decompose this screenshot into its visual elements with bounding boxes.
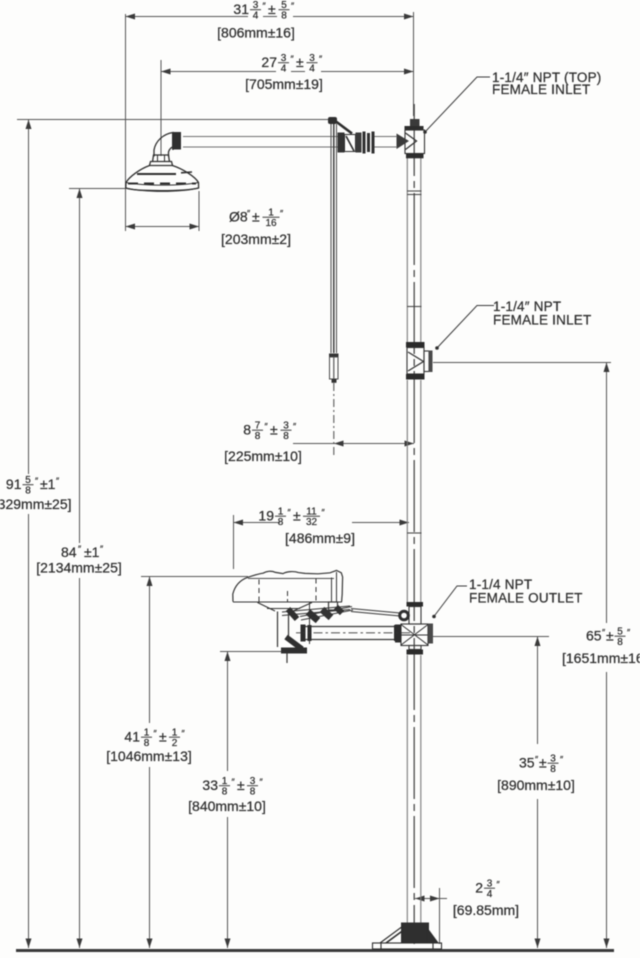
valve right nut (356, 133, 362, 153)
dim line dia8 horizontal (126, 226, 200, 228)
dim text 91-5/8 (6, 475, 60, 497)
right arrow 19-1/8 (400, 520, 410, 526)
left cap (395, 625, 401, 643)
pipe coupling y=307 (407, 306, 422, 308)
right arrow 8-7/8 (405, 441, 415, 447)
svg-text:[2329mm±25]: [2329mm±25] (0, 496, 72, 512)
dim text 33-1/8 (202, 776, 263, 798)
body (407, 348, 424, 375)
svg-text:″: ″ (247, 209, 251, 219)
svg-text:8: 8 (283, 431, 289, 442)
svg-text:″: ″ (154, 729, 158, 739)
funnel inner line (267, 608, 300, 610)
bowl hidden drain dash (287, 591, 289, 602)
up arrow 65 (604, 363, 610, 373)
ext line pipe centre above tee (413, 12, 415, 116)
ext line 2-3/4 x=439 (439, 888, 441, 944)
svg-text:32: 32 (306, 517, 318, 528)
left gusset (380, 926, 403, 943)
down arrow 35 (535, 939, 541, 949)
dim text dia 8 (229, 207, 284, 229)
callout side inlet (493, 299, 591, 328)
ext line side inlet y=362 (433, 362, 611, 364)
svg-text:″: ″ (293, 422, 297, 432)
svg-text:″: ″ (497, 880, 501, 890)
right arrow 31-3/4 (404, 14, 414, 20)
dim line 84 vertical (79, 189, 81, 543)
down arrow 41-1/8 (147, 939, 153, 949)
svg-text:″: ″ (260, 777, 264, 787)
tee bottom flange (406, 154, 424, 159)
svg-text:″: ″ (291, 54, 295, 64)
svg-text:[203mm±2]: [203mm±2] (221, 231, 291, 247)
svg-text:±: ± (293, 508, 301, 524)
ext line outlet y=636 (433, 636, 549, 638)
svg-text:Ø8: Ø8 (229, 209, 248, 225)
svg-text:4: 4 (487, 889, 493, 900)
svg-text:84: 84 (61, 544, 77, 560)
svg-text:FEMALE OUTLET: FEMALE OUTLET (469, 591, 583, 606)
branch cap hatched (429, 351, 433, 373)
svg-text:[1651mm±16]: [1651mm±16] (562, 650, 640, 666)
right gusset (427, 928, 438, 943)
svg-text:4: 4 (281, 63, 287, 74)
svg-text:″: ″ (280, 209, 284, 219)
funnel (258, 603, 313, 612)
svg-text:″: ″ (322, 508, 326, 518)
svg-text:±1: ±1 (40, 476, 56, 492)
waste pipe right coupling (394, 625, 399, 641)
dim text 84 (61, 544, 104, 560)
left arrow 27-3/4 (161, 69, 171, 75)
valve handle lever (334, 120, 352, 134)
head bell cone (126, 166, 199, 191)
ext line head centre x=161 (160, 60, 162, 156)
nozzle body (329, 602, 338, 610)
dim line 2-3/4 horizontal (415, 898, 447, 900)
arm pipe left section (183, 136, 338, 138)
svg-text:8: 8 (243, 422, 251, 438)
svg-text:″: ″ (78, 544, 82, 554)
svg-text:65: 65 (586, 628, 602, 644)
svg-text:19: 19 (258, 508, 274, 524)
tee inner cone lines (406, 133, 417, 150)
svg-text:″: ″ (100, 544, 104, 554)
svg-text:[2134mm±25]: [2134mm±25] (36, 560, 122, 576)
bowl outline (233, 570, 343, 601)
dim line 41-1/8 vertical (149, 577, 151, 723)
top flange (407, 602, 424, 607)
svg-text:8: 8 (25, 485, 31, 496)
down arrow 84 (77, 939, 83, 949)
svg-text:FEMALE INLET: FEMALE INLET (493, 313, 591, 328)
down arrow 91-5/8 (26, 939, 32, 949)
right arrow 27-3/4 (404, 69, 414, 75)
svg-text:27: 27 (261, 54, 277, 70)
pipe segment middle (406, 380, 408, 602)
svg-text:8: 8 (250, 786, 256, 797)
top flange (406, 342, 425, 348)
bell rim top edge (126, 183, 199, 186)
svg-text:35: 35 (519, 755, 535, 771)
svg-text:±: ± (296, 54, 304, 70)
left arrow 8-7/8 (334, 441, 344, 447)
dim text 31-3/4 (233, 0, 295, 21)
centre spray blobs (308, 612, 318, 621)
ext line bowl top y=576 (141, 576, 248, 578)
dim line 91-5/8 vertical (28, 120, 30, 474)
up arrow 41-1/8 (147, 577, 153, 587)
svg-text:″: ″ (182, 729, 186, 739)
waste pipe (301, 626, 398, 628)
bowl bottom line (233, 601, 342, 603)
rod centre dark line (333, 124, 335, 353)
ext line drain bottom y=653 (220, 651, 285, 653)
dim text 8-7/8 (243, 420, 297, 442)
dim text 65 (586, 626, 631, 648)
svg-text:″: ″ (265, 422, 269, 432)
drain rear support line (309, 603, 311, 645)
svg-text:″: ″ (291, 1, 295, 11)
svg-text:31: 31 (233, 1, 249, 17)
cone from arm (397, 134, 410, 150)
bottom flange (406, 374, 425, 380)
union coupling ribs (363, 132, 366, 154)
supply tube (351, 609, 400, 614)
dim text 2-3/4 (475, 878, 500, 900)
head collar (150, 162, 173, 166)
svg-text:FEMALE INLET: FEMALE INLET (492, 82, 590, 97)
svg-text:2: 2 (475, 880, 483, 896)
bell inner streak (137, 173, 176, 175)
upper neck (409, 607, 421, 625)
dim line 33-1/8 vertical (227, 652, 229, 771)
pipe coupling y=192 (407, 190, 422, 192)
dim line 65 vertical (606, 363, 608, 623)
up arrow 84 (77, 189, 83, 199)
svg-text:[225mm±10]: [225mm±10] (224, 448, 302, 464)
ext line head left edge x=125.5 (125, 14, 127, 231)
svg-text:8: 8 (278, 517, 284, 528)
pipe segment upper (406, 158, 408, 342)
pipe coupling y=533 (407, 532, 422, 534)
down arrow 33-1/8 (225, 939, 231, 949)
arm pipe right section (374, 136, 397, 138)
hub (401, 923, 429, 944)
leader side inlet (437, 306, 495, 349)
left arrow 31-3/4 (126, 14, 136, 20)
right arrow 2-3/4 (430, 896, 440, 902)
wide body (401, 624, 428, 646)
valve body (345, 135, 356, 152)
bowl riser verticals (331, 578, 333, 602)
left arrow 2-3/4 (415, 896, 425, 902)
dim line 19-1/8 horizontal (234, 522, 281, 524)
left spray head (288, 609, 297, 619)
dim text 27-3/4 (261, 53, 323, 75)
X cone lines (401, 625, 428, 646)
right arrow dia8 (190, 224, 200, 230)
svg-text:±: ± (606, 628, 614, 644)
top cap stem (410, 119, 420, 126)
svg-text:[705mm±19]: [705mm±19] (245, 76, 323, 92)
floor line (16, 949, 614, 952)
svg-text:″: ″ (263, 1, 267, 11)
waste pipe left coupling (301, 625, 306, 642)
bell bottom curve (126, 188, 199, 191)
dim line 8-7/8 horizontal (293, 443, 414, 445)
bottom flange (407, 650, 424, 655)
drain elbow (286, 637, 302, 649)
paddle bar (300, 607, 352, 617)
bowl inner top line (248, 577, 334, 579)
right branch (424, 351, 429, 372)
svg-text:8: 8 (222, 786, 228, 797)
svg-text:8: 8 (617, 637, 623, 648)
svg-text:[1046mm±13]: [1046mm±13] (106, 748, 192, 764)
callout top inlet (492, 70, 602, 97)
svg-text:8: 8 (550, 764, 556, 775)
lower neck (409, 646, 421, 650)
up arrow 33-1/8 (225, 652, 231, 662)
rod handle (330, 357, 339, 379)
handle knob (328, 117, 337, 124)
svg-text:±: ± (268, 1, 276, 17)
spray yoke arms (282, 606, 350, 612)
svg-text:″: ″ (56, 476, 60, 486)
svg-text:8: 8 (281, 10, 287, 21)
supply elbow ring at pipe (400, 611, 409, 620)
svg-text:±: ± (237, 777, 245, 793)
waste centreline (296, 632, 410, 634)
svg-text:33: 33 (202, 777, 218, 793)
ext line shower rim y=188 (69, 188, 126, 190)
svg-text:[840mm±10]: [840mm±10] (188, 798, 266, 814)
dim line 27-3/4 horizontal (161, 71, 276, 73)
svg-text:16: 16 (265, 218, 277, 229)
svg-text:±: ± (252, 209, 260, 225)
svg-text:±1: ±1 (84, 544, 100, 560)
svg-text:[69.85mm]: [69.85mm] (453, 902, 519, 918)
dim text 19-1/8 (258, 506, 325, 528)
svg-text:″: ″ (319, 54, 323, 64)
rod handle bottom cap (332, 379, 337, 383)
left arrow 19-1/8 (234, 520, 244, 526)
ext line bowl left x=234 (233, 515, 235, 569)
svg-text:±: ± (159, 729, 167, 745)
base plate (373, 943, 442, 949)
drain pipe (277, 612, 279, 648)
svg-text:8: 8 (255, 431, 261, 442)
callout outlet (469, 577, 583, 606)
left arrow dia8 (126, 224, 136, 230)
svg-text:″: ″ (232, 777, 236, 787)
down arrow 65 (604, 939, 610, 949)
leader top inlet (425, 77, 491, 133)
elbow coupling (172, 132, 181, 150)
pipe centreline dash-dot (413, 104, 415, 944)
drain tail (286, 653, 288, 663)
elbow (154, 133, 173, 157)
dim line 35 vertical (537, 637, 539, 744)
up arrow 91-5/8 (26, 120, 32, 130)
top cap flange (405, 126, 424, 130)
head nipple/nut (153, 155, 170, 162)
svg-text:[806mm±16]: [806mm±16] (217, 25, 295, 41)
dim text 41-1/8 (124, 727, 185, 749)
rod centreline to dim (333, 383, 335, 455)
svg-text:41: 41 (124, 729, 140, 745)
leader outlet (434, 586, 468, 617)
svg-text:4: 4 (253, 10, 259, 21)
svg-text:±: ± (270, 422, 278, 438)
ext line head right edge x=199 (198, 191, 200, 231)
up arrow 35 (535, 637, 541, 647)
ext line top of unit y=119 (17, 119, 330, 121)
svg-text:[486mm±9]: [486mm±9] (285, 530, 355, 546)
rod handle top band (329, 354, 339, 358)
valve left nut (338, 133, 345, 153)
svg-text:91: 91 (6, 476, 22, 492)
pipe segment lower (406, 655, 408, 928)
svg-text:4: 4 (309, 63, 315, 74)
svg-text:″: ″ (560, 755, 564, 765)
svg-text:±: ± (539, 755, 547, 771)
dim line 31-3/4 horizontal (126, 16, 249, 18)
right branch (428, 624, 433, 644)
rod double line (330, 124, 332, 353)
svg-text:″: ″ (288, 508, 292, 518)
dim text 35 (519, 753, 564, 775)
cone (408, 352, 424, 371)
svg-text:″: ″ (35, 476, 39, 486)
svg-text:″: ″ (627, 628, 631, 638)
svg-text:[890mm±10]: [890mm±10] (497, 777, 575, 793)
bowl hidden dashes interior (258, 580, 260, 602)
bell hidden dash line (128, 183, 196, 185)
tee body (405, 130, 425, 154)
